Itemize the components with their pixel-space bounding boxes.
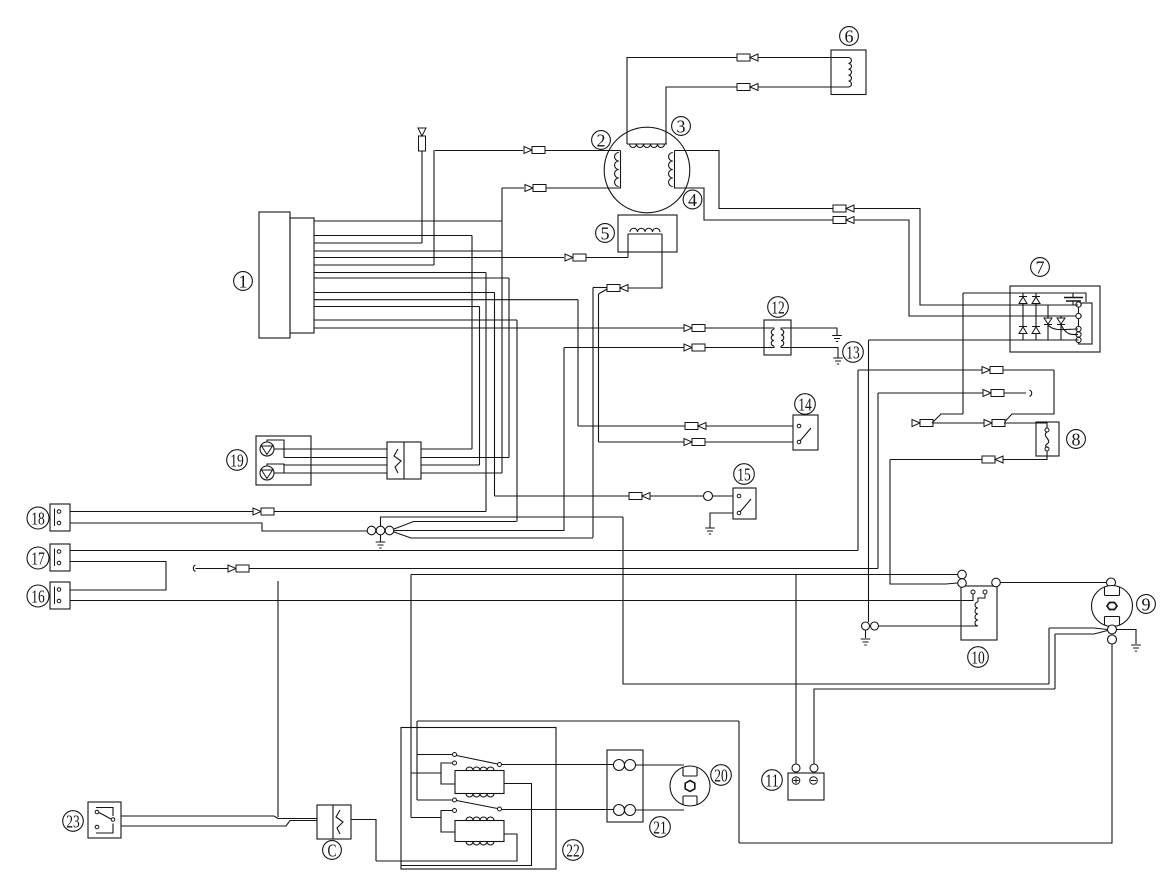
wire w11 <box>314 306 480 308</box>
wire horn upper to ground <box>791 328 837 336</box>
magneto left coil 2 <box>615 151 621 189</box>
wire to switch A1 <box>417 754 453 756</box>
winding1 bracket <box>441 761 457 784</box>
connector on spare lead <box>983 390 1004 397</box>
wire w9 <box>314 292 495 294</box>
lamp 19b hook <box>267 464 284 473</box>
thyristor 2 <box>1057 316 1078 340</box>
label 21 <box>650 817 671 838</box>
spare terminal above harness <box>418 128 426 151</box>
wire winding1 out <box>502 764 614 766</box>
wire coil4 bottom lead to rectifier <box>675 188 1083 316</box>
rectifier-regulator 7 box <box>1010 286 1100 352</box>
svg-text:12: 12 <box>771 298 785 318</box>
wire 21 to motor bottom <box>636 809 685 811</box>
label 9 <box>1137 595 1156 615</box>
svg-text:8: 8 <box>1072 430 1081 450</box>
switch 16 box <box>50 582 70 609</box>
lamp 19a <box>260 442 274 456</box>
svg-text:6: 6 <box>845 27 854 47</box>
wire riser x878 <box>877 393 879 569</box>
motor 20 bottom notch <box>683 796 697 805</box>
winding1 switch <box>453 753 502 767</box>
wire to 15 <box>495 495 734 497</box>
unplugged lead hook right <box>1030 390 1032 397</box>
relay bullet A <box>958 570 967 579</box>
wire coil5 left leg <box>627 234 629 258</box>
label 17 <box>27 547 49 569</box>
fuse C element <box>333 805 343 839</box>
connector on y370 <box>982 367 1003 374</box>
wire junction fan mid <box>394 530 564 532</box>
indicator lamps 19 box <box>256 436 311 485</box>
wire fuse3 out <box>421 464 480 466</box>
starter 9 top notch <box>1105 587 1120 596</box>
wire starter ground <box>1117 630 1137 645</box>
wire y370 to connector <box>858 369 1054 371</box>
connector on 14 lower wire <box>684 439 705 446</box>
wire x1055 riser <box>1054 634 1056 689</box>
label C <box>323 841 342 861</box>
wire coil4 top lead to rectifier <box>675 151 1083 306</box>
svg-text:21: 21 <box>653 818 667 838</box>
svg-text:4: 4 <box>688 190 697 210</box>
label 19 <box>227 450 248 471</box>
wire winding1 right leg <box>401 784 532 866</box>
wire fuse C out <box>351 820 376 862</box>
wire fuse2 out <box>421 457 509 459</box>
label 2 <box>592 131 611 151</box>
wire junction stub <box>381 517 624 526</box>
svg-text:14: 14 <box>798 395 812 415</box>
connector on magneto2 top lead <box>524 147 545 154</box>
label 14 <box>795 394 816 415</box>
component 1 handlebar-switch connector body <box>259 212 314 338</box>
wire w6 <box>314 264 434 266</box>
wire y423 to fuse 8 <box>1004 423 1047 430</box>
wire x858 riser <box>857 370 859 551</box>
wire w2 <box>314 235 472 237</box>
connector on hook lead <box>228 565 249 572</box>
wire fuse8 bottom out <box>890 451 1047 460</box>
wire winding2 out <box>502 809 614 811</box>
ring terminal of 15 <box>704 492 713 501</box>
wire main feed y574 <box>411 574 958 576</box>
svg-text:2: 2 <box>597 131 606 151</box>
wire x1049 riser <box>1048 628 1050 684</box>
wire 16 lower long to relay <box>70 594 973 601</box>
connector on 18 upper <box>253 508 274 515</box>
wire riser x739 <box>738 721 740 843</box>
switch 23 pins and lever <box>95 810 115 829</box>
battery terminal bullets <box>792 764 818 772</box>
diode column 1 <box>1019 293 1027 340</box>
switch 23 box <box>88 802 121 838</box>
relay bullet B <box>958 579 967 588</box>
wire 18 lower to junction <box>70 523 367 531</box>
wire dropper x593 to junction <box>592 288 594 538</box>
wire 23 lower to fuse C <box>121 821 317 827</box>
wire w5 to coil 5 <box>314 257 628 259</box>
horn 12 box <box>764 320 791 355</box>
starter 9 lower bullet 1 <box>1108 625 1117 634</box>
wire junction fan down <box>394 532 593 538</box>
wire 15 to ground <box>710 513 733 528</box>
wire lamp1 <box>274 448 387 450</box>
wire trunk x502 magneto feed <box>501 188 503 473</box>
wire lamp4 <box>274 472 387 474</box>
magneto top coil 3 <box>627 144 667 148</box>
motor 20 shaft <box>685 781 695 792</box>
wire to starter bullet b <box>1055 631 1108 635</box>
label 18 <box>27 507 49 529</box>
magneto right coil 4 <box>669 151 675 189</box>
fuse box near 19 <box>387 442 421 479</box>
svg-text:15: 15 <box>737 465 751 485</box>
wire dropper x509 w8-fuse2 <box>508 278 510 458</box>
fuse 8 element <box>1045 428 1049 451</box>
thyristor 1 <box>1044 305 1078 340</box>
wire 21 to motor top <box>636 764 685 766</box>
label 11 <box>762 770 783 791</box>
svg-text:11: 11 <box>765 771 779 791</box>
junction bullet 3 <box>385 526 394 535</box>
fuse C box <box>317 805 351 839</box>
connector on coil4 bottom lead <box>833 217 854 224</box>
ignition source coil 5 box <box>618 215 677 252</box>
capacitor in rectifier <box>1064 293 1083 305</box>
wire to 14 upper <box>578 425 793 427</box>
starter 9 lower bullet 2 <box>1108 635 1117 644</box>
wire relay to starter 9 <box>1001 582 1107 584</box>
rectifier pin row <box>1076 302 1081 343</box>
wire x411 branch to winding1 <box>411 772 441 774</box>
winding2 switch <box>453 798 502 811</box>
switch 23 brackets <box>96 808 113 834</box>
connector on w5 <box>565 254 586 261</box>
wire between connectors y423 <box>932 422 984 424</box>
label 12 <box>768 297 789 318</box>
wire riser x963 to rectifier <box>962 293 964 414</box>
svg-text:16: 16 <box>31 587 45 607</box>
wire dropper x479 w11-fuse3 <box>479 307 481 466</box>
lamp 19a hook <box>267 440 284 449</box>
svg-text:22: 22 <box>566 841 580 861</box>
starter 9 shaft <box>1107 603 1117 610</box>
relay ground stub <box>865 630 867 638</box>
relay pins <box>971 590 987 602</box>
switch 15 pins and lever <box>737 494 751 515</box>
unplugged lead hook left <box>193 565 195 572</box>
ground right of starter <box>1131 645 1141 651</box>
wire x411 branch to winding2 <box>411 817 441 819</box>
relay coil bullets <box>862 622 879 630</box>
wire dropper x564 to junction <box>563 348 565 532</box>
switch 14 pins and lever <box>797 424 811 444</box>
svg-text:18: 18 <box>31 509 45 529</box>
connector 21 box <box>607 750 643 822</box>
lamp 19b <box>260 466 274 480</box>
svg-text:19: 19 <box>230 451 244 471</box>
wire to starter bullet a <box>1049 628 1108 630</box>
wire x623 junction drop <box>623 517 1049 684</box>
diode column 2 <box>1032 293 1040 340</box>
label 15 <box>734 464 755 485</box>
connector 21 lower bullets <box>614 805 636 816</box>
label 20 <box>711 765 732 786</box>
wire fuse4 out <box>421 472 502 474</box>
wire dropper x486 w7-sw18 <box>485 273 487 512</box>
wire spare to hook right <box>878 392 1026 394</box>
wire w7 <box>314 272 486 274</box>
wire dropper x517 w12-junction <box>516 320 518 521</box>
svg-text:9: 9 <box>1142 595 1151 615</box>
wire y423 diag up <box>932 414 963 423</box>
wire diag x598 <box>599 289 608 294</box>
ground under junction <box>376 542 386 548</box>
wire dropper x411 to starter windings <box>410 575 412 818</box>
svg-text:17: 17 <box>31 549 45 569</box>
wire riser x422 to spare terminal <box>421 151 423 243</box>
ground under 15 <box>705 528 715 534</box>
connector on 14 upper wire <box>685 423 706 430</box>
motor 20 top notch <box>683 768 697 777</box>
switch 15 box <box>733 488 756 519</box>
wire junction fan up <box>394 522 517 530</box>
wire x1054 drop <box>1004 370 1054 423</box>
wire lamp2 <box>284 449 387 458</box>
wire riser x434 <box>433 150 435 265</box>
wire w13 to horn 12 <box>314 327 764 329</box>
wire dropper x472 w2-fuse1 <box>471 236 473 450</box>
label 1 <box>234 272 253 292</box>
wire to switch A2 <box>417 799 453 801</box>
connector coil5 to ground wires <box>607 285 628 292</box>
label 10 <box>968 647 989 668</box>
wire dropper x868 rectifier to relay <box>868 340 870 622</box>
motor 20 body <box>670 766 710 806</box>
connector on lead A <box>737 54 758 61</box>
wire fuse1 out <box>421 448 472 450</box>
label 23 <box>63 811 84 832</box>
wire dropper x278 lead <box>277 581 279 817</box>
starter motor 9 body <box>1092 586 1133 627</box>
wire w10 <box>314 299 578 301</box>
connector 21 upper bullets <box>614 760 636 771</box>
wire dropper x890 to relay <box>890 460 958 585</box>
wire rectifier top bus <box>963 293 1086 302</box>
brake switch 14 box <box>793 415 818 450</box>
wire to 14 lower <box>599 441 794 443</box>
fuse 8 box <box>1036 422 1059 456</box>
label 13 <box>843 342 864 363</box>
wire 17 upper long <box>70 550 858 552</box>
junction ground stub <box>380 535 382 542</box>
wire y721 to windings <box>417 720 739 722</box>
coil 6 winding <box>831 58 851 88</box>
wire dropper x598 to switch14 <box>598 294 600 442</box>
wire w1 <box>314 220 502 222</box>
svg-text:7: 7 <box>1036 258 1045 278</box>
relay coil <box>975 602 978 626</box>
label 8 <box>1067 430 1086 450</box>
winding 2 box <box>455 817 504 845</box>
wire w3 <box>314 242 422 244</box>
rectifier inner terminal block <box>1079 303 1093 344</box>
svg-text:13: 13 <box>846 343 860 363</box>
connector pair y423 left <box>912 420 933 427</box>
wire w4 <box>314 250 502 252</box>
connector on horn lower <box>684 344 705 351</box>
junction bullet 2 <box>376 526 385 535</box>
starter windings 22 outer box <box>401 728 556 870</box>
label 4 <box>683 190 702 210</box>
connector pair y423 right <box>984 420 1005 427</box>
starter 9 top bullet <box>1107 578 1116 587</box>
label 6 <box>840 27 859 47</box>
connector on fuse8 wire <box>982 456 1003 463</box>
connector on magneto2 bottom lead <box>525 185 546 192</box>
relay output bullet <box>992 578 1001 587</box>
label 7 <box>1031 258 1050 278</box>
ground under relay <box>861 639 871 645</box>
wire 17-16 bracket <box>70 562 166 591</box>
label 3 <box>672 117 691 137</box>
wire 23 upper to fuse C <box>121 816 317 819</box>
svg-text:23: 23 <box>66 812 80 832</box>
wire dropper x494 w9-sw15 <box>494 293 496 497</box>
connector on coil4 top lead <box>833 205 854 212</box>
wire stub x593 <box>593 287 607 289</box>
label 16 <box>27 585 49 607</box>
svg-text:3: 3 <box>677 117 686 137</box>
svg-text:10: 10 <box>971 648 985 668</box>
connector on w13 <box>684 325 705 332</box>
label 22 <box>563 840 584 861</box>
wire horn lower left <box>564 347 764 349</box>
wire relay coil bottom <box>879 625 979 627</box>
svg-text:C: C <box>328 841 337 861</box>
magneto flywheel circle <box>604 127 690 213</box>
ground 13b <box>833 358 843 364</box>
battery minus symbol <box>810 777 818 785</box>
wire coil5 right leg <box>628 234 662 288</box>
wire battery minus riser <box>814 689 1055 764</box>
battery plus symbol <box>792 777 800 785</box>
wire horn lower to ground <box>791 348 838 359</box>
wire starter heavy cable down <box>739 644 1112 843</box>
wire w8 <box>314 277 509 279</box>
ground 13a <box>832 336 842 342</box>
svg-text:20: 20 <box>714 766 728 786</box>
wire coil3 lead A to coil 6 <box>627 58 831 145</box>
wire magneto2 top lead <box>435 150 621 152</box>
starter 9 bottom notch <box>1105 617 1120 626</box>
wire fuse C to winding2 <box>376 834 517 861</box>
svg-text:1: 1 <box>239 272 248 292</box>
switch 18 box <box>50 504 70 531</box>
wire w12 <box>314 319 517 321</box>
connector on 15 wire <box>629 493 650 500</box>
wire rectifier bottom bus <box>869 339 1079 341</box>
wire x417 feed <box>416 721 418 800</box>
winding2 bracket <box>441 809 457 833</box>
wire magneto2 bottom lead <box>502 187 621 189</box>
svg-text:5: 5 <box>601 224 610 244</box>
horn coils <box>764 328 791 348</box>
wire 18 upper <box>70 511 486 513</box>
coil 5 winding <box>628 228 662 234</box>
ignition coil 6 box <box>831 50 866 95</box>
junction bullet 1 <box>367 526 376 535</box>
battery 11 box <box>788 773 824 800</box>
wire coil3 lead B to coil 6 <box>666 87 831 144</box>
wire hook lead <box>196 568 879 570</box>
wire lamp3 <box>284 464 387 465</box>
label 5 <box>596 224 615 244</box>
connector on lead B <box>737 84 758 91</box>
starter relay 10 box <box>961 586 997 640</box>
wire battery plus riser <box>795 575 797 765</box>
wire dropper x578 w10-sw14 <box>577 300 579 426</box>
winding 1 box <box>455 767 504 797</box>
switch 17 box <box>50 544 70 571</box>
